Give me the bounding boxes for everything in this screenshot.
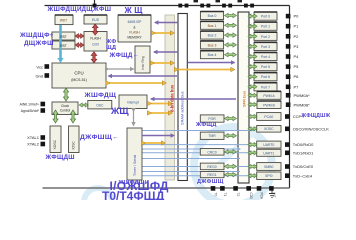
svg-text:P7: P7 <box>294 84 300 89</box>
svg-text:TxD0/CxE0: TxD0/CxE0 <box>293 164 314 169</box>
svg-text:P0: P0 <box>294 14 300 19</box>
svg-text:Gnd: Gnd <box>35 74 43 79</box>
svg-text:XOSC: XOSC <box>53 139 57 149</box>
svg-text:Instr Reg: Instr Reg <box>141 56 145 70</box>
svg-text:OSC: OSC <box>96 103 104 107</box>
svg-text:EUS: EUS <box>92 18 100 22</box>
svg-text:INT: INT <box>272 193 276 198</box>
svg-text:REG1: REG1 <box>207 173 216 177</box>
svg-text:T0: T0 <box>214 193 218 197</box>
svg-text:Bus 1: Bus 1 <box>208 24 217 28</box>
svg-text:CRC0: CRC0 <box>207 150 216 154</box>
svg-text:P5: P5 <box>294 64 300 69</box>
svg-text:SPI0: SPI0 <box>265 174 272 178</box>
svg-text:64KB ISP: 64KB ISP <box>128 20 142 24</box>
svg-text:P3: P3 <box>294 44 300 49</box>
svg-text:AIN0.1/Vref+: AIN0.1/Vref+ <box>20 102 39 106</box>
svg-text:Port 1: Port 1 <box>261 25 270 29</box>
svg-text:XTAL1: XTAL1 <box>27 135 40 140</box>
svg-text:Bus 4: Bus 4 <box>208 53 217 57</box>
svg-text:Port 2: Port 2 <box>261 35 270 39</box>
svg-text:UART1: UART1 <box>263 151 274 155</box>
svg-text:POR: POR <box>208 117 216 121</box>
svg-text:T1: T1 <box>223 193 227 197</box>
svg-text:C2D: C2D <box>249 193 253 200</box>
svg-text:Port 3: Port 3 <box>261 45 270 49</box>
svg-text:P1: P1 <box>294 24 300 29</box>
svg-text:SRAM address bus: SRAM address bus <box>179 91 184 125</box>
svg-text:P2: P2 <box>294 34 300 39</box>
svg-text:Interrupt: Interrupt <box>127 101 139 105</box>
svg-text:CPU: CPU <box>74 71 83 76</box>
svg-text:Clock: Clock <box>61 104 69 108</box>
svg-text:PWM A: PWM A <box>263 94 275 98</box>
svg-text:SFR bus: SFR bus <box>241 90 246 107</box>
svg-text:Timer / Serial: Timer / Serial <box>133 155 137 176</box>
svg-text:XOSC: XOSC <box>264 127 274 131</box>
svg-text:OSC0/XIN/OSCCLK: OSC0/XIN/OSCCLK <box>293 126 330 131</box>
svg-text:T2: T2 <box>236 193 240 197</box>
svg-text:(MCS-51): (MCS-51) <box>71 78 87 82</box>
svg-text:Control: Control <box>60 109 71 113</box>
svg-text:UART0: UART0 <box>263 143 274 147</box>
svg-text:WDT: WDT <box>60 19 67 23</box>
svg-text:PWM0B*: PWM0B* <box>294 102 311 107</box>
svg-text:Port 7: Port 7 <box>261 85 270 89</box>
svg-text:XTAL2: XTAL2 <box>27 141 40 146</box>
svg-text:PWM B: PWM B <box>263 103 275 107</box>
svg-text:RST: RST <box>60 44 67 48</box>
svg-text:P6: P6 <box>294 74 300 79</box>
svg-text:Bus 2: Bus 2 <box>208 34 217 38</box>
svg-text:Agnd/AVdd*: Agnd/AVdd* <box>21 109 40 113</box>
svg-text:TxD0/RxD0: TxD0/RxD0 <box>293 142 314 147</box>
svg-text:Port 0: Port 0 <box>261 15 270 19</box>
svg-text:TMR: TMR <box>208 134 216 138</box>
svg-text:TxD~CxE4: TxD~CxE4 <box>293 173 313 178</box>
svg-text:P4: P4 <box>294 54 300 59</box>
svg-text:RST: RST <box>60 35 67 39</box>
svg-text:Vcc: Vcc <box>36 65 43 70</box>
svg-text:TxD1/RxD1: TxD1/RxD1 <box>293 150 314 155</box>
svg-text:Cntrl: Cntrl <box>92 43 99 47</box>
svg-text:Port 4: Port 4 <box>261 55 270 59</box>
svg-text:Port 5: Port 5 <box>261 65 270 69</box>
svg-text:Port 6: Port 6 <box>261 75 270 79</box>
svg-text:PWM0A*: PWM0A* <box>294 93 311 98</box>
svg-text:Bus 0: Bus 0 <box>208 14 217 18</box>
svg-text:PCA: PCA <box>260 193 264 200</box>
svg-text:FLASH: FLASH <box>90 37 101 41</box>
svg-text:Bus 3: Bus 3 <box>208 43 217 47</box>
svg-text:REG0: REG0 <box>207 165 216 169</box>
svg-text:MEMORY: MEMORY <box>127 36 142 40</box>
svg-text:PCA0: PCA0 <box>264 115 273 119</box>
svg-text:FLASH: FLASH <box>129 31 140 35</box>
svg-text:8-bit data bus: 8-bit data bus <box>170 84 175 112</box>
svg-text:IOSC: IOSC <box>71 141 75 150</box>
svg-text:SMB0: SMB0 <box>264 165 273 169</box>
